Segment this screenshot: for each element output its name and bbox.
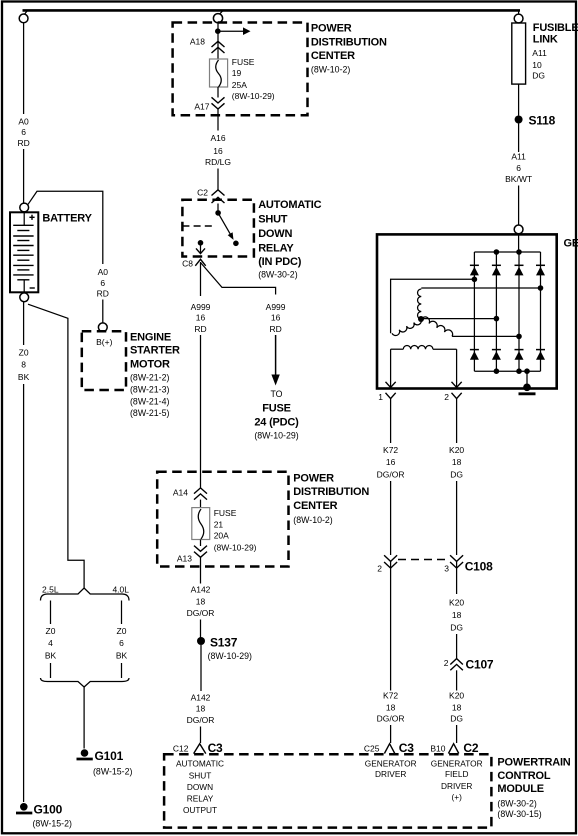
svg-text:A11: A11 [532,48,547,58]
svg-text:POWER: POWER [293,473,334,485]
svg-text:RD/LG: RD/LG [205,157,231,167]
svg-text:(8W-15-2): (8W-15-2) [33,819,73,829]
svg-text:A0: A0 [98,267,109,277]
svg-text:BK/WT: BK/WT [505,174,532,184]
svg-text:A142: A142 [191,585,211,595]
svg-text:DRIVER: DRIVER [375,769,406,779]
svg-text:B10: B10 [430,744,445,754]
svg-text:FUSIBLE: FUSIBLE [533,22,578,34]
svg-text:C2: C2 [463,741,478,755]
svg-text:(8W-15-2): (8W-15-2) [93,767,133,777]
svg-text:24 (PDC): 24 (PDC) [254,417,299,429]
svg-text:A16: A16 [210,133,225,143]
svg-text:A14: A14 [173,488,188,498]
svg-text:Z0: Z0 [19,348,29,358]
svg-text:SHUT: SHUT [189,770,212,780]
svg-text:S118: S118 [529,114,556,128]
svg-text:STARTER: STARTER [130,345,180,357]
svg-text:K20: K20 [449,445,464,455]
svg-text:18: 18 [386,703,396,713]
svg-text:DG/OR: DG/OR [187,715,215,725]
svg-text:A999: A999 [266,302,286,312]
svg-text:BK: BK [116,651,128,661]
svg-text:6: 6 [516,163,521,173]
svg-text:K20: K20 [449,598,464,608]
svg-text:POWERTRAIN: POWERTRAIN [497,757,570,769]
svg-text:FUSE: FUSE [232,57,255,67]
svg-text:(8W-10-29): (8W-10-29) [208,651,252,661]
svg-text:DOWN: DOWN [258,228,292,240]
svg-text:DISTRIBUTION: DISTRIBUTION [293,486,369,498]
svg-text:2.5L: 2.5L [42,585,59,595]
svg-text:DG: DG [450,470,463,480]
svg-text:8: 8 [21,360,26,370]
svg-text:MODULE: MODULE [497,783,543,795]
svg-text:6: 6 [100,278,105,288]
svg-text:DISTRIBUTION: DISTRIBUTION [311,37,387,49]
svg-text:(8W-10-2): (8W-10-2) [311,65,351,75]
svg-text:G100: G100 [34,803,63,817]
svg-text:C108: C108 [465,560,493,574]
svg-text:FIELD: FIELD [445,769,469,779]
svg-text:16: 16 [196,313,206,323]
svg-text:4.0L: 4.0L [112,585,129,595]
svg-text:CENTER: CENTER [311,50,355,62]
svg-text:25A: 25A [232,80,247,90]
svg-text:(8W-10-29): (8W-10-29) [232,91,275,101]
svg-text:B(+): B(+) [96,337,112,347]
svg-text:C3: C3 [399,741,414,755]
svg-text:(8W-21-3): (8W-21-3) [130,385,170,395]
svg-text:C3: C3 [208,741,223,755]
svg-text:DG: DG [532,70,545,80]
svg-text:18: 18 [452,610,462,620]
svg-text:A17: A17 [194,102,209,112]
svg-text:18: 18 [452,457,462,467]
svg-text:6: 6 [119,638,124,648]
svg-text:2: 2 [444,392,449,402]
svg-text:10: 10 [532,60,542,70]
svg-text:(8W-30-2): (8W-30-2) [497,799,537,809]
svg-text:2: 2 [377,564,382,574]
svg-text:A18: A18 [190,37,205,47]
svg-text:(8W-21-2): (8W-21-2) [130,373,170,383]
svg-text:16: 16 [213,146,223,156]
svg-text:C25: C25 [364,744,380,754]
svg-text:SHUT: SHUT [258,213,288,225]
svg-text:RD: RD [269,324,281,334]
svg-text:CONTROL: CONTROL [497,770,550,782]
svg-text:(8W-21-4): (8W-21-4) [130,397,170,407]
svg-text:A142: A142 [191,693,211,703]
svg-text:OUTPUT: OUTPUT [183,805,217,815]
svg-text:(8W-30-2): (8W-30-2) [258,269,298,279]
svg-text:K72: K72 [383,691,398,701]
svg-text:4: 4 [48,638,53,648]
svg-text:BK: BK [18,372,30,382]
svg-text:C12: C12 [173,744,189,754]
svg-text:RD: RD [97,289,109,299]
svg-text:MOTOR: MOTOR [130,359,170,371]
svg-text:AUTOMATIC: AUTOMATIC [176,759,224,769]
svg-text:(IN PDC): (IN PDC) [258,256,302,268]
svg-text:(8W-10-2): (8W-10-2) [293,515,333,525]
svg-text:18: 18 [196,597,206,607]
svg-text:Z0: Z0 [117,626,127,636]
svg-text:20A: 20A [214,531,229,541]
svg-text:DG/OR: DG/OR [377,714,405,724]
svg-text:RELAY: RELAY [258,242,294,254]
svg-text:16: 16 [271,313,281,323]
svg-text:C8: C8 [182,259,193,269]
svg-text:DG: DG [450,623,463,633]
svg-text:(8W-10-29): (8W-10-29) [214,543,257,553]
svg-text:GE: GE [564,238,578,250]
svg-text:S137: S137 [210,636,238,650]
svg-text:GENERATOR: GENERATOR [365,759,417,769]
svg-text:DG/OR: DG/OR [377,470,405,480]
svg-text:A11: A11 [511,152,526,162]
svg-text:POWER: POWER [311,23,352,35]
svg-text:ENGINE: ENGINE [130,332,171,344]
svg-text:21: 21 [214,520,224,530]
svg-text:1: 1 [378,392,383,402]
svg-text:A13: A13 [177,554,192,564]
svg-text:AUTOMATIC: AUTOMATIC [258,199,321,211]
svg-text:BK: BK [45,651,57,661]
svg-text:C2: C2 [197,188,208,198]
svg-text:(8W-21-5): (8W-21-5) [130,408,170,418]
svg-text:A999: A999 [191,302,211,312]
svg-text:2: 2 [444,658,449,668]
svg-text:CENTER: CENTER [293,500,337,512]
svg-text:TO: TO [270,389,282,399]
svg-text:18: 18 [196,704,206,714]
svg-text:19: 19 [232,68,242,78]
svg-text:(8W-10-29): (8W-10-29) [254,431,298,441]
svg-text:(+): (+) [452,792,463,802]
svg-text:18: 18 [452,703,462,713]
svg-text:K20: K20 [449,691,464,701]
svg-text:Z0: Z0 [46,626,56,636]
svg-text:FUSE: FUSE [214,508,237,518]
svg-text:BATTERY: BATTERY [42,213,92,225]
svg-text:RELAY: RELAY [187,794,214,804]
svg-text:G101: G101 [95,749,124,763]
svg-text:LINK: LINK [533,34,558,46]
svg-text:DOWN: DOWN [187,782,213,792]
svg-text:16: 16 [386,457,396,467]
svg-text:K72: K72 [383,445,398,455]
svg-text:6: 6 [21,127,26,137]
svg-text:DRIVER: DRIVER [441,781,472,791]
svg-text:DG/OR: DG/OR [187,608,215,618]
svg-text:C107: C107 [466,658,494,672]
svg-text:RD: RD [17,138,29,148]
svg-text:DG: DG [450,714,463,724]
svg-text:(8W-30-15): (8W-30-15) [497,809,541,819]
svg-text:3: 3 [444,564,449,574]
svg-text:A0: A0 [18,117,29,127]
svg-text:GENERATOR: GENERATOR [431,759,483,769]
svg-text:RD: RD [194,324,206,334]
svg-text:FUSE: FUSE [262,402,291,414]
